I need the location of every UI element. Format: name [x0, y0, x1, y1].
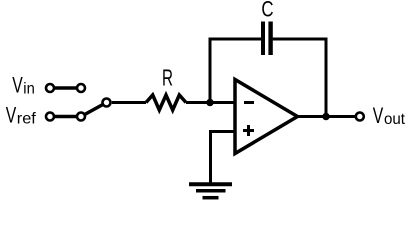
- svg-text:V: V: [12, 73, 23, 98]
- terminal Vout: [356, 113, 364, 121]
- node junction at inverting input: [206, 99, 213, 106]
- wire resistor to op-amp inverting input: [186, 101, 234, 104]
- svg-text:in: in: [23, 81, 35, 98]
- capacitor C left plate: [261, 22, 265, 56]
- terminal Vin left: [46, 84, 54, 92]
- wire Vref terminal bar: [50, 115, 81, 119]
- node junction at output: [322, 113, 329, 120]
- op-amp U1 plus sign: [243, 125, 254, 136]
- svg-text:V: V: [373, 103, 384, 128]
- svg-text:out: out: [384, 111, 406, 128]
- resistor R: [146, 95, 186, 110]
- switch SW1 arm: [81, 103, 107, 117]
- label Vref: [6, 103, 37, 128]
- wire Vin terminal bar: [50, 86, 81, 90]
- op-amp U1 minus sign: [244, 101, 254, 104]
- svg-text:C: C: [261, 0, 273, 21]
- op-amp U1: [235, 80, 298, 154]
- wire op-amp output: [298, 115, 356, 118]
- switch SW1 common terminal: [103, 99, 111, 107]
- wire switch to resistor: [112, 101, 146, 104]
- svg-text:R: R: [162, 65, 173, 91]
- capacitor C right plate: [268, 22, 272, 56]
- wire capacitor to output node: [273, 39, 326, 117]
- wire non-inverting input to ground: [211, 132, 235, 185]
- ground: [189, 184, 232, 197]
- terminal Vref left: [46, 113, 54, 121]
- wire feedback up and to capacitor: [210, 39, 261, 103]
- label Vout: [373, 103, 406, 128]
- terminal Vin right: [77, 84, 85, 92]
- svg-text:ref: ref: [17, 111, 37, 128]
- label Vin: [12, 73, 35, 98]
- terminal Vref right: [77, 113, 85, 121]
- svg-text:V: V: [6, 103, 17, 128]
